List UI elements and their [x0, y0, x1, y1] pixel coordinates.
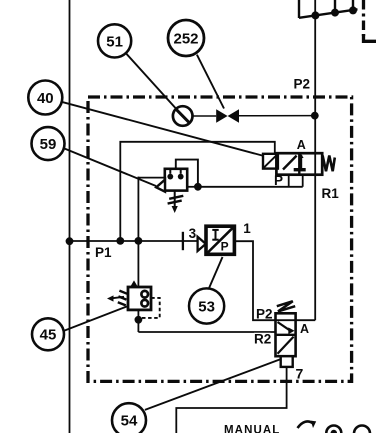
svg-text:59: 59: [40, 136, 57, 153]
callout line 40: [62, 102, 264, 156]
svg-text:3: 3: [189, 226, 197, 241]
balloon 54: [112, 403, 146, 433]
wire: P supply line to valve R1: [198, 186, 303, 188]
node port tick on P1 line: [182, 232, 184, 250]
wire: R1 T-port stub: [302, 175, 304, 187]
svg-text:7: 7: [296, 365, 304, 381]
balloon 53: [189, 288, 224, 323]
node R2 label (with mask over line): [254, 332, 271, 347]
valve 45 pilot dashed line: [141, 298, 160, 318]
wire vent to shutoff: [193, 115, 217, 117]
callout line 54: [145, 359, 281, 410]
callout line 252: [197, 55, 224, 109]
node junction dot P1-pilot: [116, 237, 124, 245]
wire: R1 P-port stub: [288, 175, 290, 187]
wire: branch corner to valve 59 inlet: [138, 177, 164, 179]
svg-text:40: 40: [37, 90, 54, 107]
pressure converter 53: [198, 226, 235, 254]
balloon 45: [32, 318, 64, 350]
svg-text:MANUAL: MANUAL: [224, 425, 280, 433]
valve 59 (pressure reducing valve): [156, 169, 187, 192]
node junction dot valve45 outlet: [135, 316, 143, 324]
partial circle symbol 1: [326, 426, 341, 433]
shutoff valve V1 (bowtie): [216, 109, 239, 123]
wire: R2 return line: [138, 331, 275, 333]
node junction dot P1-main: [66, 237, 74, 245]
valve 45 (relief valve): [128, 280, 151, 310]
balloon 59: [32, 127, 65, 160]
node junction dot P1-branch: [135, 237, 143, 245]
wire shutoff to P2 line: [239, 115, 315, 117]
svg-text:R1: R1: [322, 186, 340, 201]
svg-text:45: 45: [40, 327, 57, 344]
svg-text:51: 51: [106, 33, 123, 50]
node junction dot valve59 outlet: [194, 183, 202, 191]
valve R2 (solenoid cartridge valve): [276, 301, 296, 356]
spring of valve R1: [323, 156, 335, 172]
svg-text:P2: P2: [256, 307, 273, 322]
wire: manifold riser 2: [334, 0, 336, 13]
wire: P1 header line: [70, 240, 199, 242]
svg-text:54: 54: [121, 413, 138, 430]
svg-text:252: 252: [173, 30, 198, 47]
svg-text:1: 1: [243, 221, 251, 236]
partial circle symbol 2: [354, 426, 370, 433]
valve 59 spring and adjust arrow: [168, 191, 184, 213]
callout line 59: [64, 148, 156, 186]
manual override arc arrow: [298, 421, 317, 428]
node junction dot manifold 1: [311, 11, 319, 19]
svg-text:A: A: [300, 322, 309, 336]
phantom enclosure border (dash-dot box): [88, 97, 352, 381]
vent plug symbol (circle with diagonal): [173, 106, 193, 126]
callout line 51: [126, 53, 176, 109]
node junction dot manifold 2: [331, 9, 339, 17]
svg-text:A: A: [297, 138, 306, 152]
wire: valve 59 outlet link: [187, 186, 198, 188]
wire: solenoid R2 return: [176, 367, 286, 433]
svg-text:P2: P2: [294, 77, 311, 92]
wire: outer vertical supply line left: [69, 0, 71, 433]
svg-text:R2: R2: [254, 332, 271, 347]
wire: top manifold slanted header: [299, 9, 358, 17]
phantom enclosure fragment top-right: [362, 0, 365, 36]
valve 45 spring and adjust arrow: [107, 291, 127, 306]
wire: manifold riser left L: [298, 0, 300, 18]
wire: valve 45 outlet down: [137, 310, 139, 332]
balloon 40: [28, 81, 62, 115]
valve R1 (2-position solenoid valve): [276, 153, 322, 175]
wire: pilot supply to solenoid R1 (inner box top): [120, 142, 274, 241]
wire: manifold riser 3: [352, 0, 354, 11]
balloon 252: [168, 20, 204, 56]
solenoid coil of valve R1: [263, 154, 278, 169]
svg-text:P: P: [274, 173, 283, 188]
solenoid coil of valve R2: [281, 356, 293, 367]
wire: port 1 to valve R2 P2 port: [234, 241, 315, 320]
svg-text:P1: P1: [95, 245, 112, 260]
wire: valve 59 pilot loop: [176, 160, 198, 187]
callout line 45: [64, 306, 128, 331]
svg-text:53: 53: [198, 298, 215, 315]
balloon 51: [98, 24, 131, 57]
wire: P2/A vertical line: [314, 0, 316, 320]
callout line 53: [209, 257, 223, 289]
svg-text:P: P: [221, 240, 229, 254]
node junction dot manifold 3: [349, 6, 357, 14]
wire: branch vertical to valve 59 and valve 45: [137, 177, 139, 287]
node junction dot P2 line: [311, 112, 319, 120]
